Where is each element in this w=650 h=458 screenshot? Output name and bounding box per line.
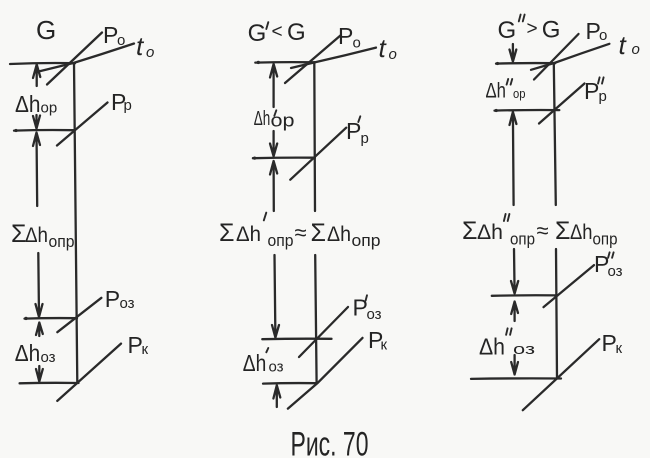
svg-text:>: >: [527, 19, 538, 40]
label sum Δh''onp ≈ sum Δh onp (right): [462, 217, 618, 249]
svg-text:G: G: [36, 15, 56, 45]
line to (left): [40, 44, 134, 72]
dimension arrow up below second line + long stem (right): [510, 112, 517, 205]
dimension stem + arrow down, sum-dim bottom end (middle): [272, 255, 279, 338]
dimension arrow up, Δh'op top end (middle): [270, 64, 277, 107]
svg-text:≈: ≈: [537, 218, 549, 243]
label Δh'op (middle): [254, 108, 295, 131]
label Δh''oz (right): [479, 334, 535, 360]
level line Pp'' (right): [495, 109, 560, 112]
svg-text:к: к: [616, 340, 623, 357]
svg-text:<: <: [272, 22, 283, 43]
svg-text:P: P: [584, 78, 599, 104]
slash Poz (left): [57, 298, 101, 332]
svg-text:Δh: Δh: [479, 334, 505, 360]
label Pp' (middle): [346, 118, 369, 147]
slash Pp'' (right): [539, 84, 585, 124]
label sum Δh'onp ≈ sum Δh onp (middle): [219, 219, 381, 250]
svg-text:оз: оз: [41, 349, 56, 366]
prime stroke on sum Δh'onp (middle): [264, 213, 267, 221]
svg-text:G: G: [287, 19, 306, 46]
svg-text:оз: оз: [120, 295, 135, 312]
prime stroke on Δh'oz (middle): [266, 348, 268, 352]
tick dot at left end of second line (right): [495, 109, 498, 112]
label Δhoz (left): [15, 340, 56, 366]
svg-text:Δh: Δh: [570, 221, 593, 244]
svg-text:Δh: Δh: [25, 224, 48, 247]
slash Po (right): [534, 34, 579, 80]
label Po (left): [103, 22, 125, 49]
prime stroke on Pp' (middle): [358, 116, 360, 122]
dimension arrow up, sum-dim top end (left): [33, 133, 40, 207]
svg-text:о: о: [146, 44, 154, 61]
slash Pk (right): [523, 339, 599, 410]
label Poz'' (right): [594, 251, 623, 280]
tick dot at left end of Poz line (left): [24, 317, 27, 320]
svg-text:Δh: Δh: [477, 221, 503, 244]
svg-text:Σ: Σ: [219, 219, 234, 247]
slash Pp' (middle): [290, 128, 346, 180]
label sum Δh onp (left): [11, 220, 75, 251]
top level line Po (right): [496, 62, 555, 65]
double prime strokes on Δh''op (right): [507, 79, 513, 85]
pipe lower segment (right): [556, 249, 557, 379]
slash Poz'' (right): [544, 265, 595, 307]
svg-text:≈: ≈: [295, 220, 307, 245]
svg-text:ор: ор: [271, 111, 295, 131]
top level line Po (left): [10, 62, 75, 65]
svg-text:P: P: [338, 23, 353, 49]
double prime strokes on Δh''oz (right): [506, 328, 512, 334]
label Pk (left): [128, 332, 149, 358]
bottom level line Pk (middle): [263, 382, 317, 385]
svg-text:Δh: Δh: [243, 350, 266, 376]
top level line Po (middle): [255, 61, 315, 64]
slash Pp (left): [57, 103, 108, 146]
pipe upper segment (right): [554, 63, 556, 205]
bottom level line Pk (right): [471, 377, 561, 380]
prime stroke on Δh'op (middle): [274, 110, 276, 116]
dimension stem + arrow down, sum-dim bottom end (left): [36, 253, 43, 317]
tick dot at left end of top line (middle): [257, 61, 260, 64]
label to (right): [619, 30, 640, 60]
slash Po (left): [47, 33, 102, 85]
label to (middle): [379, 33, 397, 63]
label Δhop (left): [15, 91, 57, 117]
svg-text:р: р: [599, 88, 607, 105]
svg-text:о: о: [599, 27, 607, 44]
pipe upper segment (middle): [313, 62, 316, 211]
label Pp (left): [111, 89, 132, 115]
svg-text:опр: опр: [268, 231, 294, 250]
level line Poz'' (right): [492, 294, 558, 297]
line to (right): [531, 44, 609, 70]
svg-text:Σ: Σ: [311, 219, 326, 247]
svg-text:опр: опр: [593, 230, 618, 249]
double prime strokes on G'' (right): [519, 15, 525, 22]
svg-text:Δh: Δh: [486, 80, 507, 103]
tick dot at left end of top line (right): [496, 62, 499, 65]
label Poz' (middle): [353, 295, 382, 324]
prime stroke on G' (middle): [266, 22, 268, 29]
svg-text:Δh: Δh: [15, 91, 41, 117]
label Pk (right): [602, 330, 623, 357]
svg-text:G: G: [248, 20, 267, 47]
level line Pp (left): [14, 129, 74, 132]
tick dot at left end of Pp' line (middle): [253, 157, 256, 160]
slash Pk (left): [57, 344, 121, 401]
double prime strokes on Poz'' (right): [608, 252, 614, 257]
level line Pp' (middle): [253, 156, 315, 159]
slash Po (middle): [285, 35, 341, 83]
label Δh'oz (middle): [243, 350, 284, 376]
slash Pk (middle): [288, 338, 363, 409]
double prime strokes on sum Δh''onp (right): [504, 214, 510, 221]
prime stroke on Poz' (middle): [366, 295, 367, 300]
slash Poz' (middle): [299, 307, 348, 357]
svg-text:Σ: Σ: [555, 217, 570, 245]
svg-text:о: о: [632, 41, 640, 58]
svg-text:оз: оз: [269, 359, 284, 376]
svg-text:опр: опр: [49, 232, 75, 251]
level line Poz' (middle): [262, 338, 331, 341]
label to (left): [136, 31, 154, 61]
svg-text:ор: ор: [41, 100, 58, 117]
double prime strokes on Pp'' (right): [598, 77, 604, 83]
label Poz (left): [105, 286, 135, 312]
pipe (left diagram vertical line): [74, 63, 77, 383]
svg-text:о: о: [353, 35, 361, 52]
dimension stem + arrow down, sum-dim bottom end (right): [511, 249, 518, 294]
label Pp'' (right): [584, 78, 607, 105]
dimension arrow up, Δh''oz top end (right): [511, 302, 518, 322]
svg-text:к: к: [142, 341, 149, 358]
label Pk (middle): [368, 327, 388, 354]
svg-text:ор: ор: [513, 86, 526, 101]
level line Poz (left): [25, 317, 78, 320]
tick dot at left end of Pp line (left): [14, 129, 17, 132]
dimension arrow down, Δhoz bottom end (left): [36, 366, 43, 382]
dimension arrow up below bottom line (middle): [273, 385, 280, 407]
svg-text:Δh: Δh: [236, 223, 261, 246]
dimension arrow up, Δhoz top end (left): [36, 323, 43, 337]
dimension arrow up, Δhop top end (left): [33, 65, 40, 87]
svg-text:Δh: Δh: [15, 340, 41, 366]
svg-text:о: о: [117, 32, 125, 49]
dimension arrow down, Δhop bottom end (left): [33, 115, 40, 129]
svg-text:оз: оз: [608, 263, 623, 280]
svg-text:к: к: [381, 337, 388, 354]
svg-text:G: G: [498, 17, 517, 44]
svg-text:оз: оз: [513, 341, 535, 358]
pipe lower segment (middle): [315, 255, 316, 383]
svg-text:Δh: Δh: [327, 223, 351, 246]
svg-text:опр: опр: [352, 231, 381, 250]
svg-text:оз: оз: [367, 306, 382, 323]
svg-text:опр: опр: [510, 230, 535, 249]
svg-text:р: р: [124, 97, 132, 114]
label G'' > G (right diagram): [498, 17, 561, 45]
label G' < G (middle diagram): [248, 19, 306, 47]
svg-text:Рис. 70: Рис. 70: [291, 426, 369, 458]
dimension arrow down, Δh''oz bottom end (right): [511, 355, 518, 375]
dimension arrow down above top line (right): [510, 44, 517, 62]
label Po (middle): [338, 23, 361, 52]
svg-text:Σ: Σ: [462, 217, 477, 245]
dimension arrow down, Δh'op bottom end (middle): [270, 131, 277, 156]
svg-text:G: G: [542, 17, 561, 44]
bottom level line Pk (left): [20, 382, 79, 385]
svg-text:Δh: Δh: [254, 108, 270, 130]
svg-text:P: P: [105, 286, 120, 312]
svg-text:о: о: [389, 46, 397, 63]
dimension arrow up, sum-dim top end (middle): [270, 161, 277, 211]
label Δh''op (right): [486, 80, 526, 103]
line to (middle): [291, 48, 376, 68]
label Po (right): [586, 18, 608, 44]
svg-text:р: р: [361, 130, 369, 147]
